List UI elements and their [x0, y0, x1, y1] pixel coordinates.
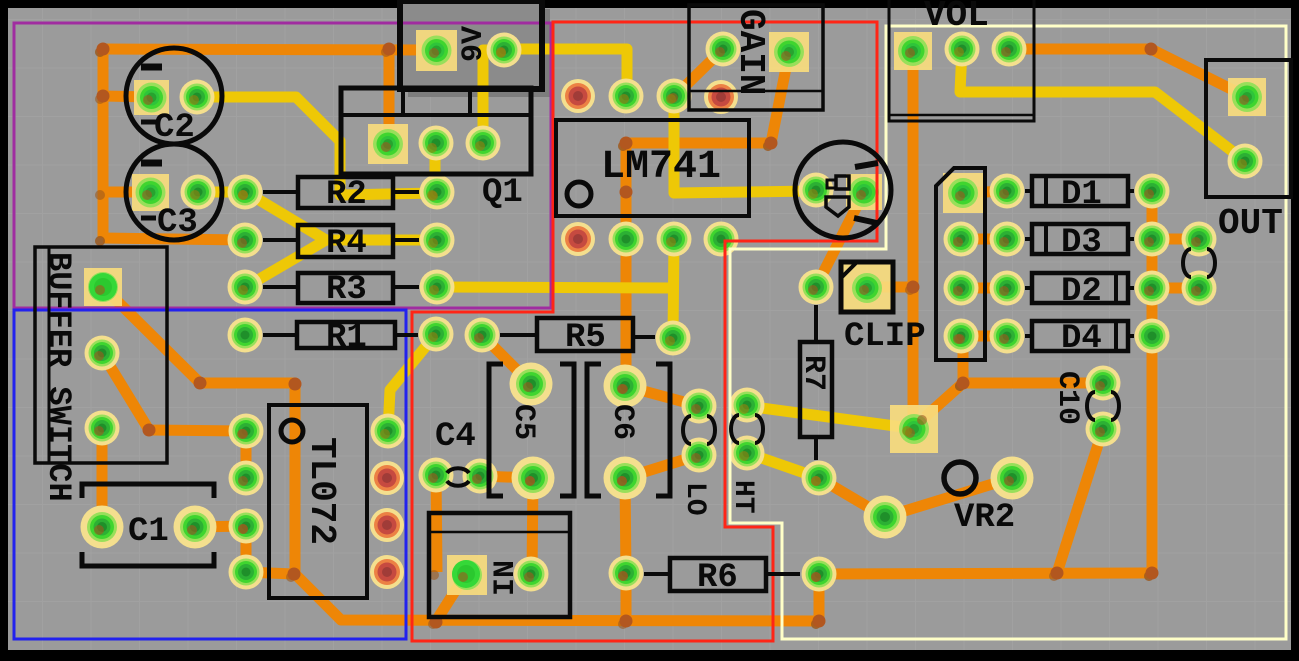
svg-text:LM741: LM741: [601, 145, 721, 190]
svg-text:C6: C6: [605, 404, 639, 440]
svg-text:VOL: VOL: [924, 0, 989, 36]
svg-text:R6: R6: [697, 559, 738, 597]
svg-text:D1: D1: [1061, 176, 1102, 214]
svg-text:R3: R3: [326, 271, 367, 309]
svg-text:Q1: Q1: [482, 174, 523, 212]
svg-text:VR2: VR2: [954, 499, 1015, 537]
svg-text:CLIP: CLIP: [844, 318, 926, 356]
svg-text:C10: C10: [1050, 371, 1084, 425]
svg-text:IN: IN: [489, 560, 523, 596]
svg-text:D3: D3: [1061, 224, 1102, 262]
svg-text:C5: C5: [506, 404, 540, 440]
svg-text:D4: D4: [1061, 320, 1102, 358]
svg-text:HT: HT: [727, 480, 758, 514]
svg-text:R2: R2: [326, 176, 367, 214]
svg-text:R4: R4: [326, 225, 367, 263]
svg-text:D2: D2: [1061, 273, 1102, 311]
svg-text:C1: C1: [128, 513, 169, 551]
svg-text:R5: R5: [565, 319, 606, 357]
svg-text:R7: R7: [796, 355, 830, 391]
svg-text:BUFFER SWITCH: BUFFER SWITCH: [40, 252, 77, 502]
svg-text:OUT: OUT: [1218, 203, 1283, 244]
svg-text:9V: 9V: [457, 26, 491, 62]
svg-text:C2: C2: [154, 109, 195, 147]
svg-text:TL072: TL072: [301, 437, 342, 545]
svg-text:R1: R1: [326, 319, 367, 357]
svg-text:GAIN: GAIN: [730, 9, 771, 95]
svg-text:C3: C3: [157, 204, 198, 242]
svg-text:LO: LO: [679, 482, 710, 516]
svg-text:C4: C4: [435, 418, 476, 456]
